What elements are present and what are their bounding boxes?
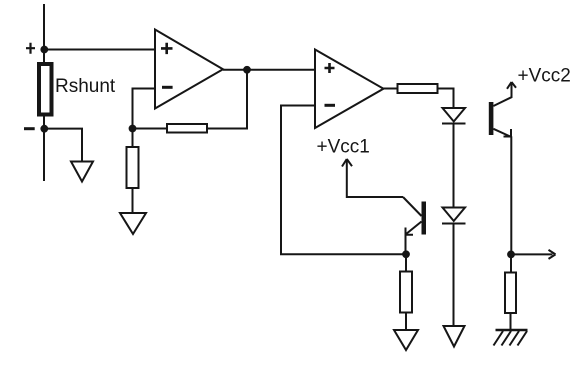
svg-text:+Vcc1: +Vcc1 (317, 137, 370, 158)
svg-text:+Vcc2: +Vcc2 (518, 66, 571, 87)
svg-text:Rshunt: Rshunt (55, 76, 116, 97)
